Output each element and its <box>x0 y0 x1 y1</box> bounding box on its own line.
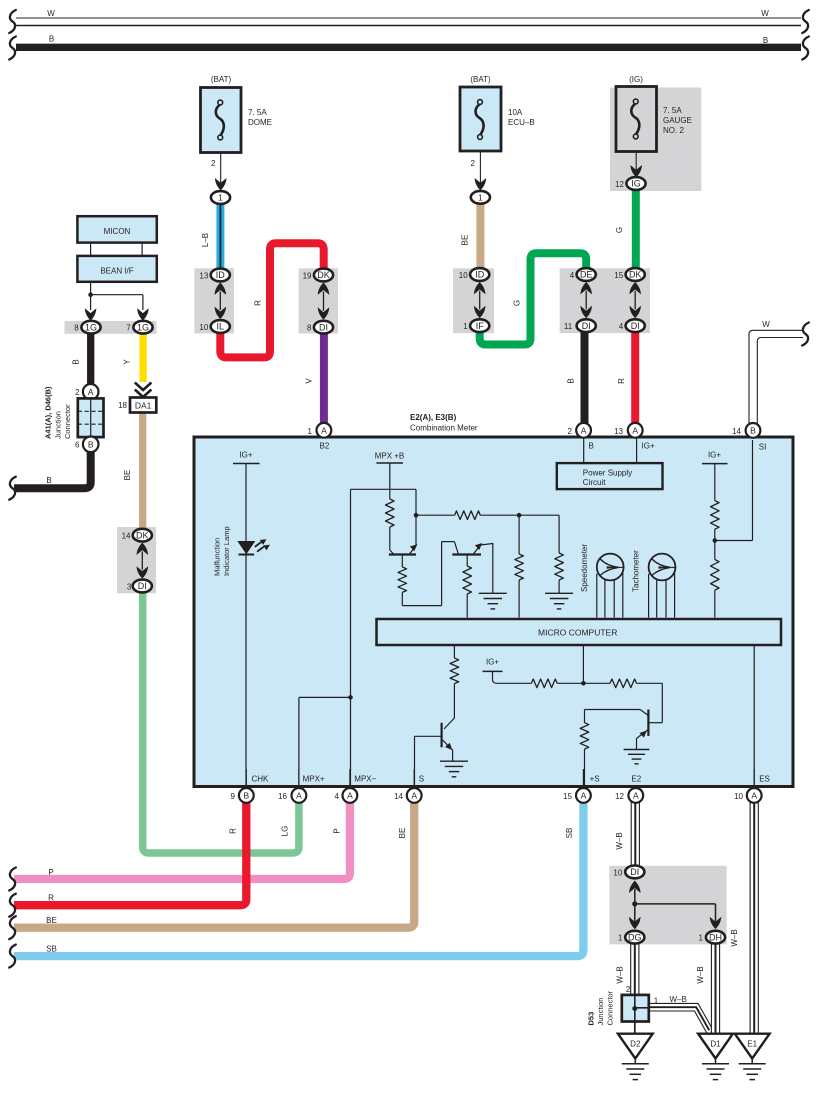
svg-text:IG+: IG+ <box>708 451 721 460</box>
svg-text:R: R <box>617 378 626 384</box>
svg-text:DK: DK <box>136 530 149 540</box>
svg-text:BE: BE <box>123 470 132 481</box>
svg-text:1: 1 <box>699 934 704 943</box>
svg-text:W: W <box>761 9 769 18</box>
svg-text:ID: ID <box>475 270 485 280</box>
svg-text:8: 8 <box>74 323 79 332</box>
svg-text:B: B <box>763 36 768 45</box>
svg-text:S: S <box>419 775 424 784</box>
svg-text:9: 9 <box>231 792 236 801</box>
svg-text:Combination Meter: Combination Meter <box>410 424 478 433</box>
svg-text:BE: BE <box>461 235 470 246</box>
svg-text:(BAT): (BAT) <box>211 75 232 84</box>
svg-text:D1: D1 <box>710 1040 721 1049</box>
svg-text:1: 1 <box>463 322 468 331</box>
svg-text:DG: DG <box>628 932 642 942</box>
svg-text:15: 15 <box>614 271 623 280</box>
svg-text:BE: BE <box>46 916 57 925</box>
svg-text:A: A <box>633 790 639 800</box>
svg-text:LG: LG <box>280 826 289 837</box>
svg-text:(IG): (IG) <box>629 75 643 84</box>
svg-text:7: 7 <box>126 323 131 332</box>
svg-text:B: B <box>566 378 575 383</box>
svg-text:1: 1 <box>478 192 483 202</box>
svg-text:G: G <box>615 227 624 233</box>
svg-text:13: 13 <box>614 427 623 436</box>
svg-text:DA1: DA1 <box>135 400 152 410</box>
svg-text:Y: Y <box>123 359 132 365</box>
svg-text:16: 16 <box>278 792 287 801</box>
svg-text:E1: E1 <box>747 1040 757 1049</box>
svg-text:SI: SI <box>759 443 767 452</box>
svg-text:CHK: CHK <box>252 775 270 784</box>
svg-text:BEAN I/F: BEAN I/F <box>100 267 133 276</box>
svg-text:+S: +S <box>590 775 600 784</box>
svg-text:DH: DH <box>709 932 722 942</box>
svg-text:DI: DI <box>138 581 147 591</box>
svg-text:IG+: IG+ <box>239 451 252 460</box>
svg-text:NO. 2: NO. 2 <box>663 126 684 135</box>
svg-text:V: V <box>304 378 313 384</box>
svg-text:2: 2 <box>568 427 573 436</box>
svg-text:W–B: W–B <box>615 966 624 983</box>
svg-text:Connector: Connector <box>63 404 72 439</box>
svg-text:19: 19 <box>303 271 312 280</box>
svg-text:W–B: W–B <box>696 966 705 983</box>
svg-text:7. 5A: 7. 5A <box>663 106 682 115</box>
svg-text:A: A <box>321 425 327 435</box>
svg-text:A41(A), D46(B): A41(A), D46(B) <box>44 386 53 439</box>
svg-text:12: 12 <box>615 792 624 801</box>
svg-text:1: 1 <box>218 193 223 203</box>
svg-text:MICRO COMPUTER: MICRO COMPUTER <box>538 628 617 638</box>
svg-text:IG+: IG+ <box>642 442 655 451</box>
svg-text:3: 3 <box>127 582 132 591</box>
svg-text:GAUGE: GAUGE <box>663 116 692 125</box>
svg-text:D53: D53 <box>587 1012 596 1026</box>
svg-text:4: 4 <box>570 271 575 280</box>
svg-text:A: A <box>581 790 587 800</box>
svg-text:10: 10 <box>199 323 208 332</box>
svg-text:1: 1 <box>618 934 623 943</box>
svg-text:12: 12 <box>615 180 624 189</box>
svg-text:W–B: W–B <box>730 929 739 946</box>
svg-text:D2: D2 <box>630 1040 641 1049</box>
svg-text:DK: DK <box>317 270 330 280</box>
svg-text:DE: DE <box>580 270 593 280</box>
svg-text:A: A <box>296 790 302 800</box>
svg-text:2: 2 <box>75 388 80 397</box>
svg-text:Junction: Junction <box>596 998 605 1026</box>
svg-text:B: B <box>49 35 54 44</box>
svg-text:E2: E2 <box>631 775 641 784</box>
svg-text:W–B: W–B <box>670 995 687 1004</box>
svg-text:Malfunction: Malfunction <box>213 538 222 576</box>
svg-text:A: A <box>751 790 757 800</box>
svg-text:MICON: MICON <box>104 227 131 236</box>
svg-text:B2: B2 <box>320 442 330 451</box>
svg-text:10: 10 <box>734 792 743 801</box>
svg-text:B: B <box>243 790 249 800</box>
svg-text:Indicator Lamp: Indicator Lamp <box>222 526 231 576</box>
svg-text:10A: 10A <box>508 108 523 117</box>
svg-text:IF: IF <box>476 321 485 331</box>
svg-text:ES: ES <box>759 775 770 784</box>
svg-text:A: A <box>347 790 353 800</box>
svg-text:W–B: W–B <box>615 832 624 849</box>
svg-text:Junction: Junction <box>54 411 63 439</box>
svg-text:14: 14 <box>122 532 131 541</box>
svg-text:W: W <box>762 320 770 329</box>
svg-text:R: R <box>48 894 54 903</box>
svg-text:R: R <box>254 300 263 306</box>
svg-text:DI: DI <box>631 321 640 331</box>
svg-text:1: 1 <box>654 996 659 1005</box>
svg-text:B: B <box>750 425 756 435</box>
svg-text:Tachometer: Tachometer <box>632 550 641 592</box>
svg-text:ECU–B: ECU–B <box>508 118 535 127</box>
svg-text:W: W <box>47 9 55 18</box>
svg-text:P: P <box>48 868 53 877</box>
svg-text:15: 15 <box>563 792 572 801</box>
svg-text:Connector: Connector <box>606 990 615 1025</box>
svg-text:(BAT): (BAT) <box>470 75 491 84</box>
svg-text:1: 1 <box>308 427 313 436</box>
svg-text:2: 2 <box>471 159 476 168</box>
svg-text:DI: DI <box>582 321 591 331</box>
svg-text:7. 5A: 7. 5A <box>248 108 267 117</box>
svg-text:18: 18 <box>118 401 127 410</box>
svg-text:14: 14 <box>732 427 741 436</box>
svg-text:A: A <box>581 425 587 435</box>
svg-text:MPX−: MPX− <box>354 775 376 784</box>
svg-text:SB: SB <box>46 945 57 954</box>
svg-text:MPX+: MPX+ <box>303 775 325 784</box>
svg-text:Power Supply: Power Supply <box>583 469 632 478</box>
svg-text:IL: IL <box>217 322 225 332</box>
svg-text:L–B: L–B <box>201 233 210 247</box>
svg-text:1G: 1G <box>85 322 97 332</box>
svg-text:G: G <box>513 300 522 306</box>
svg-text:A: A <box>411 790 417 800</box>
svg-text:1G: 1G <box>137 322 149 332</box>
svg-text:A: A <box>632 425 638 435</box>
svg-text:E2(A), E3(B): E2(A), E3(B) <box>410 413 457 422</box>
svg-text:10: 10 <box>459 271 468 280</box>
svg-text:6: 6 <box>75 441 80 450</box>
svg-text:DK: DK <box>629 270 642 280</box>
svg-text:ID: ID <box>216 270 226 280</box>
svg-text:Circuit: Circuit <box>583 478 606 487</box>
svg-text:11: 11 <box>564 322 573 331</box>
svg-text:DI: DI <box>319 322 328 332</box>
svg-text:13: 13 <box>199 271 208 280</box>
svg-text:MPX +B: MPX +B <box>375 452 405 461</box>
svg-text:B: B <box>88 439 94 449</box>
svg-text:14: 14 <box>394 792 403 801</box>
svg-text:IG: IG <box>631 179 641 189</box>
svg-text:DOME: DOME <box>248 118 272 127</box>
svg-text:BE: BE <box>398 828 407 839</box>
svg-text:Speedometer: Speedometer <box>580 544 589 592</box>
svg-text:4: 4 <box>619 322 624 331</box>
svg-text:B: B <box>72 359 81 364</box>
svg-text:P: P <box>332 828 341 833</box>
svg-text:DI: DI <box>630 867 639 877</box>
svg-text:A: A <box>88 387 94 397</box>
svg-text:10: 10 <box>613 868 622 877</box>
svg-text:2: 2 <box>211 159 216 168</box>
svg-text:2: 2 <box>626 985 631 994</box>
svg-text:B: B <box>589 442 594 451</box>
svg-text:B: B <box>46 476 51 485</box>
svg-text:IG+: IG+ <box>486 658 499 667</box>
svg-text:R: R <box>229 828 238 834</box>
svg-text:8: 8 <box>307 324 312 333</box>
svg-text:4: 4 <box>335 792 340 801</box>
svg-text:SB: SB <box>565 828 574 839</box>
